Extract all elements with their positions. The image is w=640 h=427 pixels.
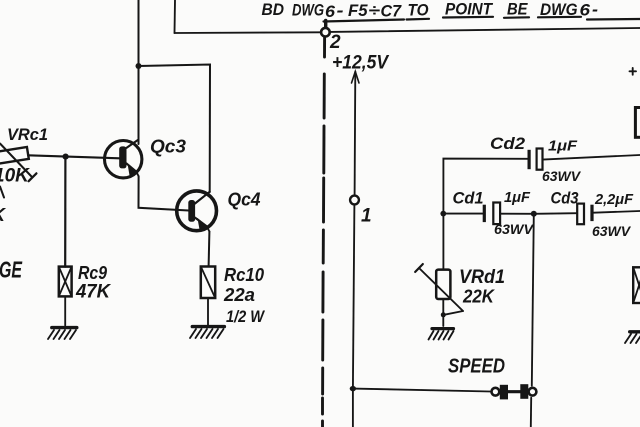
junction dot under VRd1 (441, 312, 446, 317)
svg-text:-: - (337, 1, 344, 20)
SPEED connector plug (left) (492, 385, 521, 400)
junction dot Rc9 tap (63, 154, 69, 160)
wire Cd1 row left (443, 213, 482, 215)
wire from node 1 down to junction (353, 205, 355, 389)
svg-text:+12,5V: +12,5V (332, 53, 389, 74)
wire continues to bottom (352, 389, 354, 427)
node 2 terminal circle (321, 28, 330, 37)
wire right of Cd3 (594, 211, 640, 213)
svg-text:SPEED: SPEED (448, 356, 505, 378)
wire: top horizontal to node 2 (175, 31, 322, 34)
right edge ground (625, 332, 640, 343)
svg-text:POINT: POINT (445, 0, 493, 19)
ground under VRd1 (429, 329, 454, 340)
junction dot at x443 (440, 211, 446, 217)
stub from underline to node 2 (324, 21, 327, 28)
transistor Qc4 (177, 191, 217, 232)
Cd2 row: corner wire (443, 159, 527, 214)
svg-text:6: 6 (325, 2, 336, 21)
svg-text:Cd1: Cd1 (453, 189, 484, 208)
VRd1 wiper return to bottom (444, 311, 463, 315)
wire below jack to bottom (530, 398, 532, 427)
svg-text:VRd1: VRd1 (459, 267, 505, 288)
wire Rc9 to ground (64, 296, 66, 325)
right edge box component (635, 108, 640, 138)
wire VRd1 to ground (442, 299, 444, 326)
dashed divider line (323, 37, 325, 427)
wire Qc4 emitter down to Rc10 (208, 232, 211, 267)
+12,5V arrow head (352, 72, 360, 84)
wire junction to Cd3 (534, 212, 577, 215)
resistor Rc9 (crossed) (59, 267, 72, 297)
svg-text:-: - (592, 0, 598, 19)
wire: branch to Qc4 collector (139, 65, 211, 193)
svg-text:Rc10: Rc10 (224, 265, 264, 285)
svg-text:BE: BE (507, 0, 528, 19)
ground under Rc9 (48, 328, 77, 339)
node junction dot at (138.5,66) (136, 63, 142, 69)
wire down to Rc9 (64, 157, 66, 267)
svg-text:TO: TO (408, 1, 429, 20)
capacitor Cd1 right plate (hollow) (493, 203, 500, 225)
svg-text:Rc9: Rc9 (78, 263, 107, 283)
svg-text:22a: 22a (223, 285, 255, 305)
VRc1 potentiometer body (0, 147, 29, 166)
wire junction down to speed jack (532, 214, 534, 386)
cut glyph V (0, 187, 4, 198)
svg-text:F5: F5 (348, 1, 368, 20)
capacitor Cd1 left plate (483, 205, 486, 222)
capacitor Cd3 right plate (590, 205, 593, 221)
capacitor Cd3 left plate (hollow) (577, 204, 584, 225)
wire: vertical feed to Qc3 collector (138, 0, 140, 144)
wire Cd1 to junction (500, 213, 534, 215)
svg-text:22K: 22K (462, 287, 496, 307)
resistor Rc10 (single diagonal) (201, 267, 215, 299)
svg-text:VRc1: VRc1 (7, 125, 48, 144)
VRd1 wiper diagonal (419, 268, 463, 311)
capacitor Cd2 right plate (hollow) (537, 149, 543, 170)
wire: top horizontal right of node 2 (330, 28, 640, 32)
svg-text:2: 2 (329, 32, 341, 53)
svg-text:63WV: 63WV (494, 221, 535, 237)
VRd1 rheostat body (436, 270, 450, 299)
SPEED connector jack (right) (520, 384, 536, 399)
title text BD DWG6 - F5÷C7 TO POINT BE DWG6 (262, 0, 599, 21)
VRd1 wiper flag (415, 264, 423, 272)
svg-text:1μF: 1μF (504, 189, 531, 206)
node 1 terminal circle (350, 196, 359, 205)
svg-text:1: 1 (361, 206, 372, 227)
wire right of Cd2 (543, 155, 640, 160)
wire Qc3 emitter to Qc4 base (139, 176, 189, 210)
svg-text:63WV: 63WV (592, 223, 632, 239)
wire Rc10 to ground (207, 298, 209, 325)
wire to SPEED connector (353, 389, 491, 392)
+12,5V wire down through node 1 (354, 72, 357, 196)
wire: vertical at x=175 top (174, 0, 177, 33)
svg-text:Qc4: Qc4 (228, 190, 261, 210)
plus mark top right (630, 68, 637, 75)
wire x443 down to VRd1 (442, 214, 444, 270)
svg-text:2,2μF: 2,2μF (594, 192, 634, 208)
svg-text:1/2 W: 1/2 W (226, 307, 266, 326)
svg-text:10K: 10K (0, 166, 30, 187)
svg-text:Cd2: Cd2 (490, 134, 526, 153)
title underline segments (324, 17, 640, 22)
capacitor Cd2 left plate (528, 150, 531, 169)
junction dot mid (531, 211, 537, 217)
svg-text:C7: C7 (381, 2, 403, 21)
transistor Qc3 (105, 140, 142, 178)
svg-text:DWG: DWG (292, 0, 324, 19)
right edge crossed resistor (633, 267, 640, 303)
svg-text:63WV: 63WV (542, 168, 582, 184)
ground under Rc10 (190, 327, 224, 338)
svg-text:1μF: 1μF (548, 138, 578, 155)
svg-text:47K: 47K (75, 282, 111, 303)
svg-text:BD: BD (262, 0, 285, 19)
svg-text:÷: ÷ (369, 1, 381, 20)
svg-text:GE: GE (0, 257, 22, 283)
junction dot speed wire (350, 386, 356, 391)
VRc1 wiper arrow (0, 144, 32, 177)
svg-text:Qc3: Qc3 (150, 137, 186, 157)
svg-text:Cd3: Cd3 (551, 189, 579, 208)
wire VRc1 to Qc3 base (28, 155, 119, 158)
